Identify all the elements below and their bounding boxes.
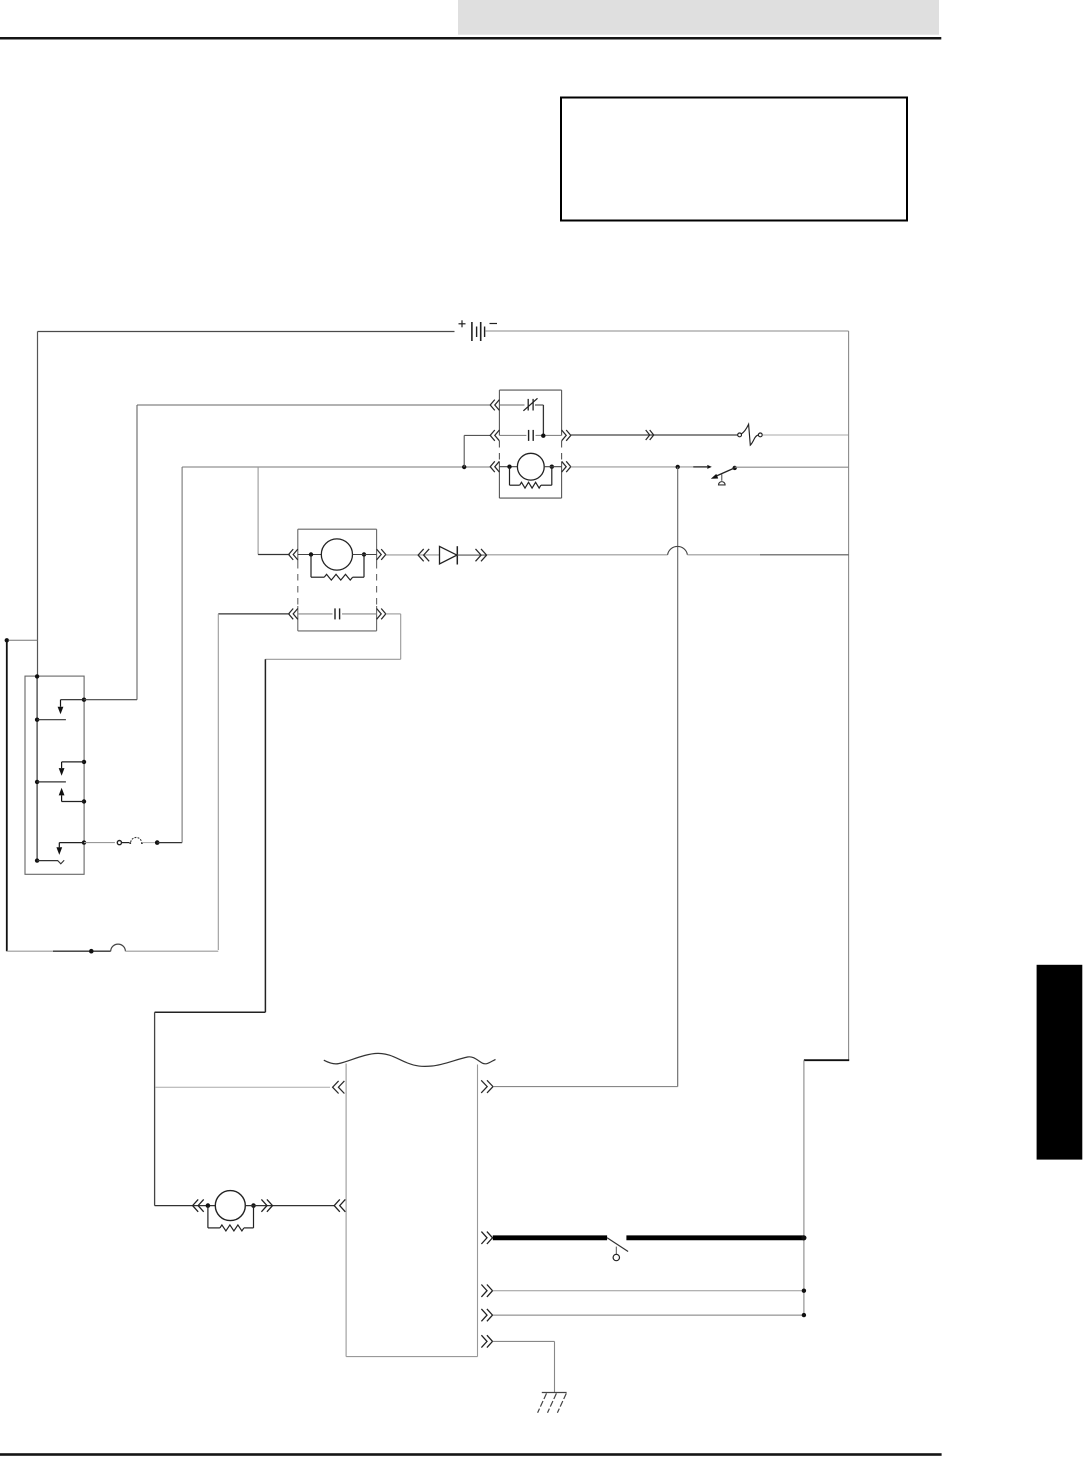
wire to capacitor branch <box>125 950 218 952</box>
wire P4 to connector <box>84 842 115 844</box>
wire switch to bus <box>735 466 849 468</box>
wire right bus vertical <box>848 331 850 1060</box>
node bus b1 <box>35 718 39 722</box>
wire jog at 1012 <box>155 1011 266 1013</box>
control unit bottom edge <box>346 1356 477 1358</box>
top rule <box>0 37 941 40</box>
contact seat <box>57 860 64 864</box>
connector pin U1-2 <box>490 430 499 441</box>
connector pin U1-1 <box>490 400 499 411</box>
capacitor C3 <box>529 430 534 441</box>
contact bar 3 <box>37 860 58 862</box>
connector pin pump-in <box>193 1199 204 1211</box>
wire U1 row2 left <box>499 434 526 436</box>
connector pin inline <box>646 430 654 440</box>
node motor right <box>550 465 554 469</box>
wire jog to relay row2 <box>464 435 491 467</box>
connector pin U2-4 <box>377 609 386 620</box>
wire U2 out right <box>386 613 401 615</box>
wire U2 row2 left <box>298 613 333 615</box>
switch pole P2 <box>59 760 87 776</box>
wire connector riser <box>181 467 183 843</box>
wire left drop to pump <box>154 1012 156 1205</box>
wire hop <box>94 944 126 951</box>
wire K1 drop <box>542 405 544 436</box>
wire pump right <box>245 1205 334 1207</box>
wire left rail vertical <box>37 332 39 677</box>
wire U2 row1 left <box>298 554 322 556</box>
connector pin A-right <box>481 1080 493 1093</box>
heavy lead left <box>493 1235 607 1240</box>
wire U1 row2 right <box>536 434 562 436</box>
wire out-2 <box>493 1290 804 1292</box>
info box <box>561 98 907 221</box>
switch pole P4 <box>56 840 86 855</box>
contact NC K1 <box>523 398 543 411</box>
switch SW2 operator <box>613 1247 619 1261</box>
contact bar 1 <box>37 719 66 721</box>
node feed junction <box>462 465 466 469</box>
heavy lead right <box>626 1235 804 1240</box>
wire U2 row1 right <box>353 554 377 556</box>
connector pin D-in <box>418 549 429 561</box>
wire U1 row3 right <box>544 466 561 468</box>
ground <box>538 1393 567 1413</box>
switch SW1 blade <box>711 466 737 479</box>
connector C2 inline <box>117 837 182 844</box>
wire switched feed row <box>182 466 491 468</box>
node pump left <box>206 1203 211 1208</box>
wire battery to right bus <box>486 330 849 332</box>
connector pin out-1 <box>481 1232 492 1244</box>
node coil right <box>362 552 366 556</box>
wire to diode connector <box>386 554 440 556</box>
wire hop over riser <box>668 546 688 554</box>
wire diode to hop <box>487 554 668 556</box>
node heavy to bus <box>801 1235 806 1240</box>
control unit left edge <box>345 1064 347 1357</box>
wire far-left vertical <box>6 642 8 952</box>
battery BAT plus label <box>459 320 466 327</box>
node out-2 bus <box>802 1289 806 1293</box>
wire to ground <box>493 1341 555 1392</box>
wire bus jog <box>804 1059 849 1061</box>
connector pin U2-2 <box>289 609 298 620</box>
connector pin out-3 <box>481 1309 492 1321</box>
battery minus label <box>490 323 498 325</box>
switch pole P1 <box>58 698 87 715</box>
wire down jog <box>265 614 400 659</box>
relay coil M1 <box>517 453 544 480</box>
wire U2 row2 right <box>342 613 377 615</box>
wire breaker to bus <box>763 434 849 436</box>
switch pole P3 <box>59 788 87 804</box>
node row2 junction <box>541 434 545 438</box>
wire U2 row2 feed <box>218 613 289 615</box>
diode D1 <box>440 546 488 564</box>
capacitor C4 <box>335 608 340 619</box>
header bar <box>458 0 939 35</box>
wire out-3 <box>493 1314 804 1316</box>
relay coil M2 <box>321 539 352 570</box>
control unit wave edge <box>324 1053 496 1066</box>
node terminal left <box>5 638 38 642</box>
wire switch riser <box>677 467 679 1087</box>
node pump right <box>251 1203 256 1208</box>
wire P1 to relay row1 <box>84 405 491 700</box>
pump motor M3 <box>215 1191 245 1221</box>
resistor R3 <box>208 1206 254 1231</box>
wire hop to bus <box>687 554 848 556</box>
wire branch to wiper relay <box>257 467 259 555</box>
wire U1 row1 <box>499 404 524 406</box>
switch box S1 outline <box>25 676 84 874</box>
circuit breaker CB1 <box>738 424 763 445</box>
wire pump feed <box>155 1205 216 1207</box>
switch SW2 blade <box>607 1238 628 1252</box>
switch bus vertical <box>36 676 38 861</box>
contact bar 2 <box>37 781 66 783</box>
relay box U2 outline <box>298 529 377 631</box>
control unit right edge <box>477 1065 479 1357</box>
node out-3 bus <box>802 1313 806 1317</box>
node coil left <box>309 552 313 556</box>
wire U1 row3 left <box>499 466 517 468</box>
connector pin out-4 <box>481 1335 492 1347</box>
wire row A right <box>493 1086 678 1088</box>
bottom rule <box>0 1453 942 1456</box>
switch SW1 fixed contact <box>693 465 712 469</box>
relay box U1 outline <box>499 390 561 498</box>
node bus b2 <box>35 780 39 784</box>
connector pin U2-3 <box>377 549 386 560</box>
switch SW1 operator <box>719 474 726 485</box>
wire bus lower vertical <box>803 1060 805 1315</box>
side tab <box>1037 965 1083 1160</box>
connector pin U1-5 <box>562 430 571 441</box>
connector pin unit-B <box>334 1199 345 1211</box>
battery BAT cells <box>472 322 485 341</box>
wire battery left to left rail <box>38 331 455 333</box>
resistor R2 <box>311 555 364 581</box>
connector pin U1-3 <box>490 461 499 472</box>
node switch branch <box>676 465 680 469</box>
wire to ignition switch <box>571 466 693 468</box>
node bus top <box>35 674 39 678</box>
wire bottom-left horizontal <box>7 950 89 952</box>
wire row A left <box>155 1086 330 1088</box>
connector pin D-out <box>476 549 487 561</box>
connector pin out-2 <box>481 1285 492 1297</box>
wire feed to U2 <box>258 554 290 556</box>
connector pin U1-6 <box>562 461 571 472</box>
node motor left <box>507 465 511 469</box>
wire capacitor branch riser <box>217 614 219 950</box>
connector pin pump-out <box>261 1199 272 1211</box>
connector pin A-left <box>333 1081 345 1094</box>
wire to breaker <box>571 434 738 436</box>
connector pin U2-1 <box>289 549 298 560</box>
connector terminal C1 <box>89 949 94 954</box>
wire long drop <box>264 659 266 1012</box>
node bus b3 <box>35 858 39 862</box>
resistor R1 <box>510 467 552 488</box>
